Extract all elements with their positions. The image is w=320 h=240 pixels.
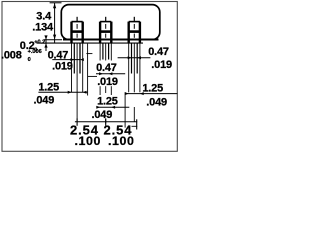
package body outline bbox=[61, 5, 160, 40]
lead 3 narrow section bbox=[131, 43, 133, 73]
svg-text:0: 0 bbox=[28, 57, 31, 63]
lead 2 centerline tick bbox=[105, 17, 107, 22]
dimension 1.25/.049 lead 1 (text left) bbox=[34, 81, 88, 106]
svg-text:.049: .049 bbox=[146, 97, 167, 109]
lead 2 extension lines bbox=[99, 43, 101, 60]
dimension 3.4/.134 top extension tick bbox=[50, 2, 62, 4]
lead 3 extension lines bbox=[128, 43, 130, 92]
svg-text:.019: .019 bbox=[151, 59, 172, 71]
pitch tick lead 1 bbox=[76, 118, 78, 125]
dimension 1.25/.049 lead 2 (text centered) bbox=[92, 96, 130, 121]
pitch dimension line 2.54 bbox=[75, 121, 137, 123]
pitch tick lead 2 bbox=[105, 118, 107, 125]
dimension 0.2 leader with arrows bbox=[45, 36, 47, 51]
svg-text:0.47: 0.47 bbox=[148, 46, 169, 58]
lead 2 wide section bbox=[100, 21, 111, 23]
package body seating edge (thick bottom) bbox=[63, 39, 159, 41]
svg-text:.049: .049 bbox=[34, 94, 55, 106]
svg-text:.019: .019 bbox=[97, 76, 118, 88]
border frame bbox=[2, 2, 177, 152]
lead 3 bbox=[129, 17, 140, 122]
dimension 0.47/.019 lead 2 (text centered) bbox=[96, 62, 125, 88]
lead 1 extension lines bbox=[71, 43, 73, 92]
lead 2 narrow section bbox=[102, 43, 104, 59]
leader line left of lead 2 dimension bbox=[87, 44, 89, 96]
dimension 0.47/.019 lead 3 (text right) bbox=[118, 46, 172, 71]
dimension 3.4/.134 vertical dimension line bbox=[54, 3, 56, 43]
svg-text:1.25: 1.25 bbox=[38, 81, 59, 93]
svg-text:+.006: +.006 bbox=[28, 49, 42, 55]
seating plane line A bbox=[37, 42, 144, 44]
svg-text:.100: .100 bbox=[108, 134, 135, 148]
lead 1 centerline tick bbox=[76, 17, 78, 22]
body bottom extension line (left) bbox=[44, 39, 62, 41]
lead 3 centerline tick bbox=[133, 17, 135, 22]
lead 3 wide section bbox=[129, 21, 140, 23]
dimension 0.47/.019 lead 1 (text left) bbox=[48, 49, 84, 72]
lead 1 narrow section bbox=[73, 43, 75, 73]
svg-text:.049: .049 bbox=[92, 109, 113, 121]
pitch tick lead 3 bbox=[136, 119, 138, 129]
svg-text:.100: .100 bbox=[75, 134, 102, 148]
lead 1 bbox=[72, 17, 83, 122]
lead 2 bbox=[100, 17, 111, 124]
dimension 1.25/.049 lead 3 (text right) bbox=[125, 82, 177, 108]
leader from lead 3 dimension down to pitch line bbox=[124, 92, 126, 127]
lead 1 wide section bbox=[72, 21, 83, 23]
svg-text:.008: .008 bbox=[1, 50, 22, 62]
svg-text:.134: .134 bbox=[32, 22, 54, 34]
svg-text:.019: .019 bbox=[52, 60, 73, 72]
svg-text:1.25: 1.25 bbox=[142, 82, 163, 94]
svg-text:+0.2: +0.2 bbox=[34, 39, 45, 45]
svg-text:0.47: 0.47 bbox=[96, 62, 117, 74]
